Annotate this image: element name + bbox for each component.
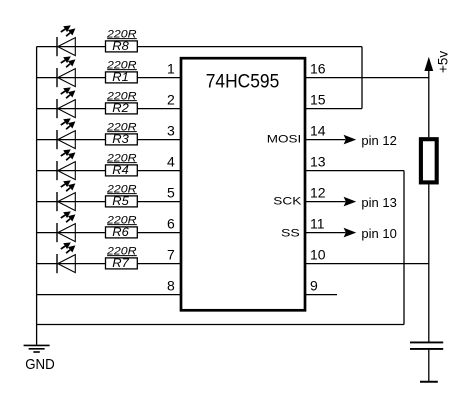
svg-text:R5: R5 <box>112 195 129 208</box>
svg-text:6: 6 <box>167 215 175 231</box>
svg-text:16: 16 <box>310 60 326 76</box>
svg-text:3: 3 <box>167 122 175 138</box>
svg-text:pin 12: pin 12 <box>361 133 396 148</box>
svg-text:pin 10: pin 10 <box>361 226 396 241</box>
svg-text:1: 1 <box>167 60 175 76</box>
svg-text:7: 7 <box>167 246 175 262</box>
svg-text:74HC595: 74HC595 <box>206 71 280 93</box>
svg-text:pin 13: pin 13 <box>361 195 396 210</box>
svg-text:SS: SS <box>281 227 300 239</box>
svg-text:14: 14 <box>310 122 326 138</box>
svg-text:GND: GND <box>25 357 55 373</box>
svg-text:R4: R4 <box>112 164 129 177</box>
svg-text:9: 9 <box>310 277 318 293</box>
svg-text:8: 8 <box>167 277 175 293</box>
svg-text:12: 12 <box>310 184 326 200</box>
svg-text:R8: R8 <box>112 40 129 53</box>
svg-text:5: 5 <box>167 184 175 200</box>
svg-text:R3: R3 <box>112 133 129 146</box>
svg-text:R1: R1 <box>112 71 129 84</box>
svg-text:MOSI: MOSI <box>267 133 302 145</box>
svg-text:4: 4 <box>167 153 175 169</box>
svg-text:R7: R7 <box>112 257 129 270</box>
svg-text:10: 10 <box>310 246 326 262</box>
svg-text:11: 11 <box>310 215 325 231</box>
svg-text:13: 13 <box>310 153 326 169</box>
svg-text:15: 15 <box>310 91 326 107</box>
svg-text:2: 2 <box>167 91 175 107</box>
svg-text:SCK: SCK <box>273 196 302 208</box>
svg-text:R2: R2 <box>112 102 129 115</box>
svg-text:R6: R6 <box>112 226 129 239</box>
svg-text:+5v: +5v <box>436 51 451 73</box>
